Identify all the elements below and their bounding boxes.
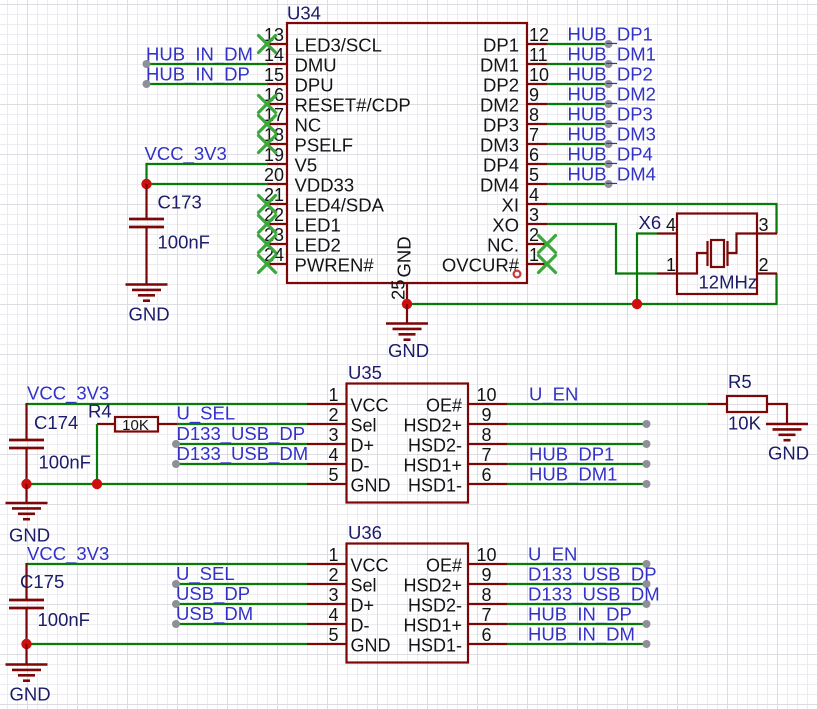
svg-text:2: 2	[328, 565, 338, 585]
svg-text:HUB_IN_DM: HUB_IN_DM	[146, 44, 253, 66]
U36 right pin names	[403, 556, 462, 656]
wire HUB_DP3 (pin 8)	[547, 123, 609, 125]
svg-text:HUB_DP1: HUB_DP1	[568, 24, 653, 46]
svg-text:LED4/SDA: LED4/SDA	[295, 195, 385, 216]
IC U35 body	[347, 384, 469, 503]
endpoint dot HUB_IN_DM (U36)	[643, 640, 651, 648]
capacitor C174 lead top	[25, 403, 27, 440]
svg-text:HUB_IN_DM: HUB_IN_DM	[528, 624, 635, 646]
svg-text:HUB_DM1: HUB_DM1	[568, 44, 656, 66]
endpoint dot U_SEL (U36)	[172, 580, 180, 588]
U36 left pin names	[351, 556, 391, 656]
svg-text:U_SEL: U_SEL	[176, 563, 235, 585]
svg-text:D133_USB_DM: D133_USB_DM	[528, 584, 660, 606]
svg-text:9: 9	[481, 405, 491, 425]
U34 left pin numbers	[264, 25, 284, 265]
svg-text:3: 3	[328, 425, 338, 445]
svg-text:DM1: DM1	[480, 55, 519, 76]
svg-text:11: 11	[529, 45, 548, 65]
svg-text:HSD2-: HSD2-	[408, 436, 462, 456]
U34 right pin stubs	[527, 44, 547, 264]
svg-text:1: 1	[328, 385, 338, 405]
U35 left pin stubs	[307, 404, 347, 484]
endpoint dot HUB_IN_DM	[143, 60, 151, 68]
svg-text:Sel: Sel	[351, 576, 377, 596]
svg-text:6: 6	[481, 625, 491, 645]
wire HUB_DP1 to U35 pin 7	[507, 463, 647, 465]
svg-text:4: 4	[328, 605, 338, 625]
wire D133_USB_DM to U36 pin 8	[507, 603, 647, 605]
wire X6 pin 4 to GND	[637, 234, 657, 305]
wire HUB_DM4 (pin 5)	[547, 183, 609, 185]
svg-text:DP1: DP1	[483, 35, 519, 56]
endpoint dot HUB_DP3	[605, 120, 613, 128]
svg-text:D-: D-	[351, 456, 370, 476]
wire USB_DP to U36 pin 3	[176, 603, 307, 605]
svg-text:U_SEL: U_SEL	[177, 403, 236, 425]
svg-text:4: 4	[666, 215, 676, 235]
svg-text:HUB_IN_DP: HUB_IN_DP	[146, 64, 250, 86]
no-connect X pin 1	[539, 256, 556, 273]
capacitor C175 lead top	[25, 563, 27, 600]
wire GND to U36 pin 5	[27, 643, 308, 645]
svg-text:USB_DP: USB_DP	[176, 583, 250, 605]
wire HUB_DM2 (pin 9)	[547, 103, 609, 105]
endpoint dot U35 pin 6	[643, 480, 651, 488]
svg-text:D+: D+	[351, 436, 375, 456]
svg-text:D133_USB_DM: D133_USB_DM	[177, 443, 309, 465]
ground symbol (R5)	[766, 424, 808, 440]
svg-text:DP2: DP2	[483, 75, 519, 96]
svg-text:USB_DM: USB_DM	[176, 603, 253, 625]
endpoint dot U35 pin 7	[643, 460, 651, 468]
no-connect X pin 24	[259, 256, 276, 273]
U34 left pin names	[295, 35, 411, 276]
svg-text:100nF: 100nF	[38, 609, 90, 630]
U36 left pin numbers	[328, 545, 338, 645]
svg-text:PWREN#: PWREN#	[295, 255, 375, 276]
svg-text:5: 5	[529, 165, 539, 185]
U35 right pin names	[403, 396, 462, 496]
R4 lead left	[97, 423, 115, 425]
no-connect X pin 2	[539, 236, 556, 253]
svg-text:VCC_3V3: VCC_3V3	[145, 143, 227, 165]
svg-text:10K: 10K	[728, 413, 762, 434]
svg-text:DMU: DMU	[295, 55, 337, 76]
svg-text:6: 6	[529, 145, 539, 165]
svg-text:4: 4	[529, 185, 539, 205]
junction node pin 25	[402, 299, 412, 309]
svg-text:VCC_3V3: VCC_3V3	[27, 543, 109, 565]
ground symbol (C173)	[126, 285, 168, 301]
wire HUB_IN_DP (pin 15)	[147, 83, 269, 85]
endpoint dot HUB_DP4	[605, 160, 613, 168]
svg-text:HSD2+: HSD2+	[403, 416, 462, 436]
svg-text:VCC: VCC	[351, 556, 389, 576]
svg-text:9: 9	[529, 85, 539, 105]
no-connect X pin 16	[259, 96, 276, 113]
capacitor C173 lead bottom	[145, 227, 147, 285]
U35 right pin stubs	[467, 404, 507, 484]
svg-text:8: 8	[481, 585, 491, 605]
endpoint dot HUB_DP2	[605, 80, 613, 88]
capacitor C175 lead bottom	[25, 608, 27, 644]
wire D133_USB_DP to U36 pin 9	[507, 583, 647, 585]
svg-text:GND: GND	[394, 236, 415, 277]
svg-text:HUB_DM3: HUB_DM3	[568, 124, 656, 146]
wire USB_DM to U36 pin 4	[176, 623, 307, 625]
svg-text:1: 1	[328, 545, 338, 565]
U34 right pin numbers	[529, 25, 549, 265]
svg-text:100nF: 100nF	[39, 452, 91, 473]
svg-text:10: 10	[529, 65, 549, 85]
wire U_EN: U35 pin 10 to R5	[507, 403, 708, 405]
svg-text:HSD1+: HSD1+	[403, 616, 462, 636]
svg-text:10: 10	[476, 385, 496, 405]
svg-text:12MHz: 12MHz	[699, 272, 758, 293]
wire VDD33 pin 20	[147, 183, 269, 185]
wire HUB_IN_DM to U36 pin 6	[507, 643, 647, 645]
svg-text:XI: XI	[502, 195, 519, 216]
capacitor C173	[129, 219, 164, 227]
junction node R4/GND	[92, 479, 102, 489]
capacitor C174 lead bottom	[25, 448, 27, 484]
U35 left pin names	[351, 396, 391, 496]
svg-text:GND: GND	[388, 340, 429, 361]
svg-text:9: 9	[481, 565, 491, 585]
svg-text:GND: GND	[351, 476, 391, 496]
svg-text:GND: GND	[10, 684, 51, 705]
svg-text:HUB_DM4: HUB_DM4	[568, 164, 656, 186]
endpoint dot D133_USB_DM	[172, 460, 180, 468]
svg-text:U_EN: U_EN	[529, 384, 578, 406]
svg-text:100nF: 100nF	[158, 232, 210, 253]
svg-text:2: 2	[328, 405, 338, 425]
U34 left pin stubs	[267, 44, 287, 264]
svg-text:HUB_DP1: HUB_DP1	[529, 444, 614, 466]
X6 pin stubs	[657, 234, 777, 274]
wire VCC_3V3 to pin 19	[147, 164, 269, 184]
ground symbol (C175)	[6, 665, 48, 681]
svg-text:6: 6	[481, 465, 491, 485]
svg-text:V5: V5	[295, 155, 318, 176]
wire U_SEL to U35 pin 2	[177, 423, 307, 425]
capacitor C175	[9, 600, 44, 608]
U34 right pin names	[442, 35, 520, 276]
svg-text:U35: U35	[348, 362, 382, 383]
svg-text:D+: D+	[351, 596, 375, 616]
svg-text:R5: R5	[728, 371, 752, 392]
U36 right pin numbers	[476, 545, 496, 645]
svg-text:8: 8	[529, 105, 539, 125]
svg-text:HSD2+: HSD2+	[403, 576, 462, 596]
svg-text:VDD33: VDD33	[295, 175, 355, 196]
wire U35 pin 8	[507, 443, 647, 445]
svg-text:HUB_DM1: HUB_DM1	[529, 464, 617, 486]
svg-text:X6: X6	[639, 212, 662, 233]
svg-text:10K: 10K	[122, 417, 149, 434]
svg-text:5: 5	[328, 625, 338, 645]
svg-text:U_EN: U_EN	[528, 544, 577, 566]
endpoint dot U_EN (U36)	[643, 560, 651, 568]
svg-text:D133_USB_DP: D133_USB_DP	[177, 423, 306, 445]
U36 left pin stubs	[307, 564, 347, 644]
resistor R4	[115, 417, 158, 432]
svg-text:XO: XO	[492, 215, 519, 236]
svg-text:12: 12	[529, 25, 549, 45]
junction node C175/GND	[21, 639, 31, 649]
wire HUB_DP4 (pin 6)	[547, 163, 609, 165]
svg-text:Sel: Sel	[351, 416, 377, 436]
svg-text:7: 7	[529, 125, 539, 145]
svg-text:D133_USB_DP: D133_USB_DP	[528, 564, 657, 586]
svg-text:GND: GND	[768, 443, 809, 464]
U34 OVCUR# inversion bubble	[514, 271, 521, 278]
endpoint dot HUB_IN_DP	[143, 80, 151, 88]
capacitor C173 lead top	[145, 184, 147, 219]
endpoint dot D133_USB_DM (U36)	[643, 600, 651, 608]
svg-text:2: 2	[759, 255, 769, 275]
svg-text:1: 1	[666, 255, 676, 275]
svg-text:OVCUR#: OVCUR#	[442, 255, 520, 276]
svg-text:8: 8	[481, 425, 491, 445]
X6 pin numbers	[666, 215, 769, 275]
endpoint dot USB_DP	[172, 600, 180, 608]
wire HUB_IN_DM (pin 14)	[147, 63, 269, 65]
no-connect X pin 18	[259, 136, 276, 153]
endpoint dot HUB_DM4	[605, 180, 613, 188]
endpoint dot HUB_IN_DP (U36)	[643, 620, 651, 628]
svg-text:HSD2-: HSD2-	[408, 596, 462, 616]
svg-text:LED1: LED1	[295, 215, 341, 236]
wire D133_USB_DM to U35 pin 4	[176, 463, 307, 465]
endpoint dot D133_USB_DP	[172, 440, 180, 448]
svg-text:R4: R4	[88, 401, 112, 422]
endpoint dot HUB_DM1	[605, 60, 613, 68]
svg-text:GND: GND	[129, 304, 170, 325]
crystal X6 body	[677, 214, 757, 295]
junction node C174/GND	[21, 479, 31, 489]
no-connect X pin 23	[259, 236, 276, 253]
svg-text:U36: U36	[348, 522, 382, 543]
wire HUB_DP1 (pin 12)	[547, 43, 609, 45]
svg-text:DM3: DM3	[480, 135, 519, 156]
wire U35 pin 9	[507, 423, 647, 425]
wire GND to U35 pin 5	[27, 483, 308, 485]
no-connect X pin 21	[259, 196, 276, 213]
U36 right pin stubs	[467, 564, 507, 644]
svg-text:VCC: VCC	[351, 396, 389, 416]
svg-text:LED3/SCL: LED3/SCL	[295, 35, 382, 56]
R5 lead right to ground	[767, 404, 787, 424]
svg-text:HUB_DP3: HUB_DP3	[568, 104, 653, 126]
svg-text:DM2: DM2	[480, 95, 519, 116]
svg-text:7: 7	[481, 605, 491, 625]
svg-text:DP4: DP4	[483, 155, 519, 176]
svg-text:NC.: NC.	[487, 235, 519, 256]
endpoint dot D133_USB_DP (U36)	[643, 580, 651, 588]
U35 left pin numbers	[328, 385, 338, 485]
svg-text:PSELF: PSELF	[295, 135, 354, 156]
wire U_EN to U36 pin 10	[507, 563, 647, 565]
wire HUB_DM3 (pin 7)	[547, 143, 609, 145]
svg-text:15: 15	[264, 65, 284, 85]
no-connect X pin 22	[259, 216, 276, 233]
svg-text:5: 5	[328, 465, 338, 485]
wire XI: U34 pin 4 to X6 pin 3	[547, 204, 777, 234]
svg-text:DPU: DPU	[295, 75, 334, 96]
svg-text:DM4: DM4	[480, 175, 519, 196]
ground lead (C174)	[25, 484, 27, 503]
wire HUB_DM1 to U35 pin 6	[507, 483, 647, 485]
ground symbol (C174)	[6, 503, 48, 519]
svg-text:GND: GND	[351, 636, 391, 656]
svg-text:20: 20	[264, 165, 284, 185]
svg-text:3: 3	[529, 205, 539, 225]
wire XO: U34 pin 3 to X6 pin 1	[547, 224, 657, 274]
U34 pin 25 stub	[406, 283, 408, 304]
endpoint dot USB_DM	[172, 620, 180, 628]
svg-text:19: 19	[264, 145, 284, 165]
ground symbol (pin 25)	[386, 324, 428, 340]
wire HUB_DP2 (pin 10)	[547, 83, 609, 85]
svg-text:OE#: OE#	[426, 556, 462, 576]
wire HUB_DM1 (pin 11)	[547, 63, 609, 65]
svg-text:HSD1+: HSD1+	[403, 456, 462, 476]
svg-text:C173: C173	[158, 192, 202, 213]
svg-text:HSD1-: HSD1-	[408, 636, 462, 656]
svg-text:DP3: DP3	[483, 115, 519, 136]
svg-text:RESET#/CDP: RESET#/CDP	[295, 95, 411, 116]
endpoint dot HUB_DM3	[605, 140, 613, 148]
R4 lead right	[158, 423, 177, 425]
U35 right pin numbers	[476, 385, 496, 485]
svg-text:HSD1-: HSD1-	[408, 476, 462, 496]
resistor R5	[727, 396, 767, 412]
svg-text:7: 7	[481, 445, 491, 465]
svg-text:25: 25	[388, 279, 409, 300]
wire D133_USB_DP to U35 pin 3	[176, 443, 307, 445]
endpoint dot HUB_DM2	[605, 100, 613, 108]
svg-text:3: 3	[759, 215, 769, 235]
IC U36 body	[347, 544, 469, 663]
wire U_SEL to U36 pin 2	[176, 583, 307, 585]
ground lead (pin 25)	[406, 304, 408, 324]
svg-text:4: 4	[328, 445, 338, 465]
svg-text:HUB_DP4: HUB_DP4	[568, 144, 653, 166]
IC U34 body	[287, 23, 527, 283]
svg-text:C175: C175	[20, 571, 64, 592]
crystal element	[677, 234, 757, 274]
svg-text:14: 14	[264, 45, 284, 65]
endpoint dot U35 pin 9	[643, 420, 651, 428]
endpoint dot U35 pin 8	[643, 440, 651, 448]
junction node VCC/C173	[141, 179, 151, 189]
ground lead (C175)	[25, 644, 27, 665]
endpoint dot HUB_DP1	[605, 40, 613, 48]
svg-text:D-: D-	[351, 616, 370, 636]
svg-text:HUB_IN_DP: HUB_IN_DP	[528, 604, 632, 626]
svg-text:10: 10	[476, 545, 496, 565]
svg-text:LED2: LED2	[295, 235, 341, 256]
wire R4 to GND	[96, 424, 98, 484]
svg-text:HUB_DM2: HUB_DM2	[568, 84, 656, 106]
svg-text:OE#: OE#	[426, 396, 462, 416]
svg-text:NC: NC	[295, 115, 322, 136]
svg-text:U34: U34	[287, 3, 321, 24]
svg-text:3: 3	[328, 585, 338, 605]
capacitor C174	[9, 440, 44, 448]
wire GND bus (pin 25 to X6 pin 2)	[407, 274, 777, 305]
wire VCC_3V3 to U35 pin 1	[27, 403, 308, 405]
svg-text:HUB_DP2: HUB_DP2	[568, 64, 653, 86]
R5 lead left	[708, 403, 727, 405]
no-connect X pin 13	[259, 36, 276, 53]
wire HUB_IN_DP to U36 pin 7	[507, 623, 647, 625]
svg-text:C174: C174	[34, 412, 78, 433]
wire VCC_3V3 to U36 pin 1	[27, 563, 308, 565]
no-connect X pin 17	[259, 116, 276, 133]
junction node GND/X6 pin4	[632, 299, 642, 309]
